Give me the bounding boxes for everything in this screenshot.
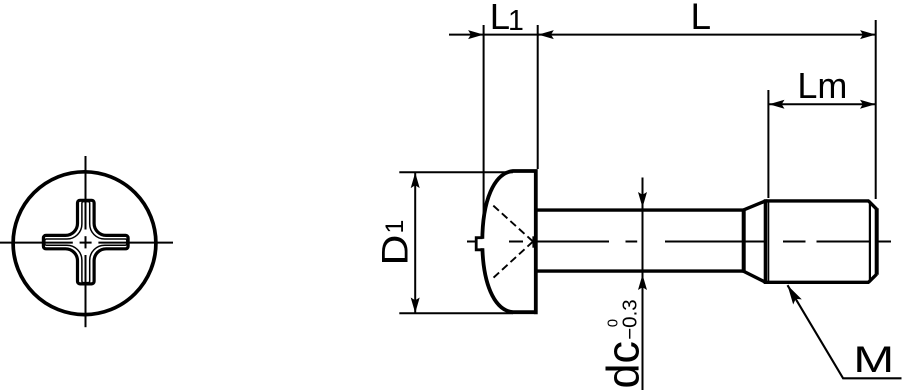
thread start taper lower — [743, 271, 765, 282]
hidden recess line lower (dashed) — [492, 242, 534, 280]
svg-text:Lm: Lm — [797, 65, 847, 106]
front view center tick (short dash cross) — [80, 236, 92, 248]
shank bottom line — [536, 269, 745, 272]
front view vertical centerline — [85, 156, 87, 327]
chamfer edge thin vertical — [869, 202, 871, 281]
side view centerline (dash-dot axis) — [467, 241, 891, 243]
label L1 — [490, 0, 524, 37]
dimension L extension line right — [875, 20, 877, 199]
dimension dc line — [642, 178, 644, 390]
label D1 (rotated) — [375, 220, 416, 266]
shank top line — [536, 208, 745, 211]
chamfer upper diagonal — [869, 201, 877, 209]
dimension D1 extension line top — [399, 171, 513, 173]
label M — [853, 340, 894, 381]
recess apex tick — [532, 236, 534, 247]
svg-text:1: 1 — [381, 220, 409, 234]
dimension L1 extension line left — [483, 25, 485, 218]
label L — [691, 0, 712, 37]
chamfer lower diagonal — [869, 274, 877, 282]
dimension L1 line and arrow — [449, 30, 540, 39]
dimension Lm line and arrows — [769, 100, 876, 109]
dimension D1 line and arrows — [411, 172, 420, 313]
phillips recess inner outline — [45, 202, 127, 283]
front view horizontal centerline — [0, 242, 173, 244]
leader arrow to thread (M) — [788, 285, 902, 378]
recess notch on head profile — [476, 238, 485, 250]
thread start thin line — [768, 201, 770, 282]
svg-text:1: 1 — [508, 5, 524, 37]
hidden recess line upper (dashed) — [492, 204, 534, 242]
svg-text:−0.3: −0.3 — [619, 299, 642, 339]
label Lm — [797, 65, 847, 106]
thread major diameter bottom line — [766, 281, 870, 284]
thread runout vertical (shank end) — [742, 209, 746, 273]
label dc upper tolerance 0 (rotated) — [604, 319, 621, 327]
dimension L1 extension line right — [537, 25, 539, 169]
head front view outline circle — [13, 172, 156, 315]
svg-text:L: L — [691, 0, 712, 37]
svg-text:D: D — [375, 235, 416, 266]
dimension dc lower arrow — [638, 275, 647, 291]
full thread start vertical — [764, 199, 768, 284]
thread start taper upper — [743, 201, 765, 210]
dimension L line and arrows — [538, 30, 875, 39]
thread major diameter top line — [766, 199, 870, 202]
dimension Lm extension line left — [767, 90, 769, 198]
dimension D1 extension line bottom — [399, 312, 513, 314]
svg-text:dc: dc — [598, 341, 649, 389]
phillips recess outer outline — [43, 200, 128, 284]
pan head profile (side view) — [482, 169, 537, 314]
thread end face — [875, 208, 879, 274]
label dc lower tolerance -0.3 (rotated) — [619, 299, 642, 339]
svg-text:M: M — [853, 340, 894, 381]
dimension dc upper arrow — [638, 192, 647, 208]
label dc (rotated) — [598, 341, 649, 389]
